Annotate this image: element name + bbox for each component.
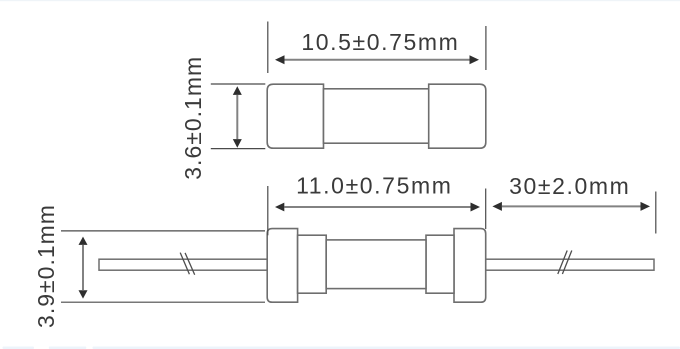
svg-text:3.9±0.1mm: 3.9±0.1mm bbox=[33, 204, 59, 328]
dimension 3.9: up arrowhead bbox=[79, 237, 88, 245]
dimension 3.9: vertical dimension line shaft bbox=[82, 245, 84, 290]
fuse side view: glass tube body bbox=[326, 240, 426, 289]
right lead break mark line 2 bbox=[562, 251, 571, 275]
fuse side view: left collar bbox=[298, 235, 327, 293]
dimension 11.0: right arrowhead bbox=[471, 203, 481, 212]
fuse top view: left end cap bbox=[267, 84, 323, 148]
dimension 30: left arrowhead bbox=[492, 202, 502, 211]
left lead break mark line 1 bbox=[180, 253, 189, 275]
dimension 10.5: left extension line bbox=[267, 22, 269, 74]
fuse top view: glass tube body bbox=[324, 89, 429, 143]
dimension 11.0: dimension line shaft bbox=[284, 206, 470, 208]
fuse top view: right end cap bbox=[429, 84, 486, 148]
dimension 30: right extension line bbox=[655, 192, 657, 234]
dimension 3.9: bottom extension line bbox=[61, 301, 265, 303]
left lead wire bbox=[99, 259, 267, 270]
dimension 3.9: down arrowhead bbox=[79, 290, 88, 298]
fuse side view: left flange cap bbox=[267, 229, 297, 303]
dimension 11.0: left extension line bbox=[267, 186, 269, 235]
fuse side view: right collar bbox=[426, 235, 454, 293]
svg-text:30±2.0mm: 30±2.0mm bbox=[509, 173, 630, 199]
svg-text:10.5±0.75mm: 10.5±0.75mm bbox=[301, 29, 459, 55]
dimension 10.5: right extension line bbox=[485, 26, 487, 70]
dimension 30: right arrowhead bbox=[641, 202, 651, 211]
dimension 10.5: left arrowhead bbox=[275, 55, 285, 64]
dimension 3.9: top extension line bbox=[61, 230, 265, 232]
page bottom edge segment 1 bbox=[3, 347, 35, 349]
dimension 3.6: bottom extension line bbox=[211, 148, 265, 150]
dimension 11.0: left arrowhead bbox=[275, 203, 284, 212]
fuse side view: right flange cap bbox=[454, 229, 486, 303]
right lead wire bbox=[486, 259, 654, 270]
dimension 10.5: dimension line shaft bbox=[284, 59, 470, 61]
dimension 3.6: top extension line bbox=[211, 83, 265, 85]
dimension 3.6: down arrowhead bbox=[233, 139, 242, 148]
dimension 3.6: up arrowhead bbox=[233, 86, 242, 95]
dimension 3.6: vertical dimension line shaft bbox=[236, 95, 238, 139]
page bottom edge segment 2 bbox=[49, 347, 87, 349]
page top edge line bbox=[0, 0, 680, 1]
svg-text:3.6±0.1mm: 3.6±0.1mm bbox=[180, 56, 206, 180]
left lead break mark line 2 bbox=[185, 253, 195, 275]
dimension 11.0: right extension line bbox=[485, 189, 487, 230]
dimension 10.5: right arrowhead bbox=[470, 55, 480, 64]
dimension 30: dimension line shaft bbox=[502, 205, 641, 207]
right lead break mark line 1 bbox=[558, 251, 567, 275]
page bottom edge segment 3 bbox=[93, 347, 680, 349]
svg-text:11.0±0.75mm: 11.0±0.75mm bbox=[296, 172, 452, 198]
